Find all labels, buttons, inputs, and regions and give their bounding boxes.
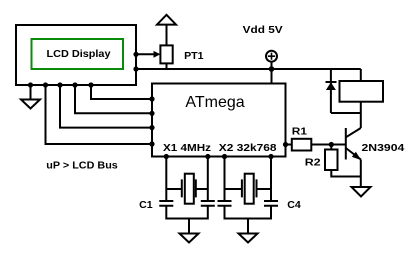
svg-text:C4: C4 [287, 200, 301, 211]
wire emitter to ground [360, 160, 362, 188]
wire bus D5 [60, 85, 152, 128]
svg-text:C1: C1 [139, 200, 153, 211]
transistor Q1 2N3904 [346, 128, 361, 160]
capacitor C4 left [218, 201, 232, 206]
wire relay top lead [360, 69, 362, 81]
wire X2 left branch [224, 157, 226, 202]
wire PT1 wiper [136, 53, 154, 55]
svg-text:Vdd 5V: Vdd 5V [243, 25, 283, 36]
ground (X1) [180, 234, 199, 243]
capacitor C1 left [159, 201, 173, 206]
wire PT1 bottom lead [166, 63, 168, 69]
capacitor C1 right [201, 201, 215, 206]
svg-text:uP > LCD Bus: uP > LCD Bus [46, 161, 118, 172]
node ATmega right pin [283, 142, 288, 147]
wire R1 left lead [286, 144, 292, 146]
wire X2 right branch [270, 157, 272, 202]
ground (Q1 emitter) [352, 187, 371, 197]
wire Vdd to ATmega [271, 62, 273, 84]
wire X1 ground drop [188, 219, 190, 234]
wire X1 cap grounds [166, 206, 208, 219]
node ATmega left pins [149, 96, 154, 101]
crystal X1 [166, 174, 208, 204]
crystal X2 [225, 174, 272, 204]
svg-text:R2: R2 [305, 157, 321, 168]
resistor R1 [292, 139, 312, 151]
ATmega U1 [152, 84, 286, 157]
wire relay bottom lead [360, 102, 362, 113]
Vdd arrow above PT1 [157, 15, 176, 25]
Vdd supply symbol [266, 51, 277, 62]
wire diode to collector join [331, 112, 361, 114]
node ATmega bottom pins [164, 154, 169, 159]
diode D1 (flyback) [326, 82, 337, 90]
svg-text:2N3904: 2N3904 [362, 143, 405, 154]
node R2 base junction [329, 142, 334, 147]
ground (X2) [239, 234, 258, 243]
wire X1 left branch [165, 157, 167, 202]
node LCD pin VO [133, 52, 138, 57]
ground (LCD) [21, 85, 40, 109]
svg-text:LCD Display: LCD Display [47, 49, 111, 60]
wire R2 top lead [330, 145, 332, 150]
wire bus D7 [91, 85, 152, 99]
wire X2 cap grounds [225, 206, 272, 219]
wire X1 right branch [207, 157, 209, 202]
wire R2 bottom to emitter [331, 170, 361, 177]
svg-text:X1 4MHz: X1 4MHz [163, 143, 211, 154]
wire Vdd rail [136, 68, 361, 70]
wire R1 to base [311, 144, 346, 146]
node LCD pin Vdd [133, 66, 138, 71]
wire diode branch [330, 69, 332, 113]
relay coil K1 [340, 81, 384, 102]
wire collector [360, 113, 362, 128]
svg-text:ATmega: ATmega [185, 94, 244, 111]
PT1 wiper arrow [154, 51, 161, 58]
LCD glass (green) [32, 39, 124, 69]
LCD module box [16, 25, 136, 85]
wire bus D6 [75, 85, 152, 113]
svg-text:X2 32k768: X2 32k768 [219, 143, 277, 154]
wire X2 ground drop [247, 219, 249, 234]
svg-text:R1: R1 [292, 126, 308, 137]
resistor R2 [325, 150, 338, 171]
wire bus D4 [46, 85, 153, 144]
capacitor C4 right [264, 201, 278, 206]
node Vdd rail junction [269, 66, 275, 72]
potentiometer PT1 [160, 45, 172, 63]
wire PT1 top lead [166, 25, 168, 46]
node LCD bottom pins [28, 82, 33, 87]
svg-text:PT1: PT1 [184, 51, 204, 62]
